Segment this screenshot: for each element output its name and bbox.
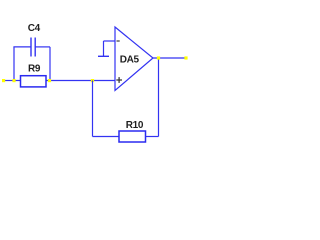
wire capacitor branch right vertical xyxy=(49,47,51,81)
wire input to junction A xyxy=(4,80,14,82)
node output pin xyxy=(184,56,187,59)
wire ground elbow horizontal xyxy=(104,40,116,42)
wire capacitor branch left vertical xyxy=(13,47,15,81)
wire feedback horizontal to R10 xyxy=(93,136,120,138)
svg-text:C4: C4 xyxy=(28,23,41,34)
wire ground vertical xyxy=(103,41,105,56)
wire R9 right to op-amp plus input xyxy=(46,80,116,82)
capacitor C4 xyxy=(31,38,35,57)
wire capacitor left horizontal xyxy=(13,46,31,48)
svg-text:R10: R10 xyxy=(126,120,144,131)
junction C xyxy=(91,79,94,82)
wire capacitor right horizontal xyxy=(35,46,50,48)
resistor R10 xyxy=(119,131,146,142)
svg-text:R9: R9 xyxy=(28,64,41,75)
junction D output xyxy=(157,56,160,59)
node input pin xyxy=(2,79,5,82)
plus marker non-inverting input xyxy=(116,77,122,83)
junction B xyxy=(48,79,51,82)
wire output xyxy=(153,57,186,59)
minus marker inverting input xyxy=(117,40,120,42)
ground xyxy=(98,55,109,57)
junction A xyxy=(12,79,15,82)
wire feedback vertical left xyxy=(92,81,94,137)
op-amp DA5 xyxy=(115,27,153,91)
wire junction A to R9 left xyxy=(14,80,21,82)
wire R10 right to corner xyxy=(146,136,159,138)
wire feedback vertical right to output xyxy=(158,58,160,137)
svg-text:DA5: DA5 xyxy=(120,55,140,66)
resistor R9 xyxy=(21,76,47,87)
